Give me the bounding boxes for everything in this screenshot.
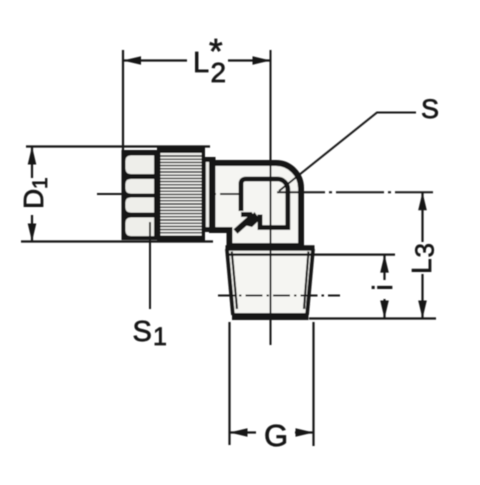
svg-text:G: G	[264, 418, 288, 453]
dim D1: down arrow	[28, 224, 37, 242]
dim L2: right arrow	[253, 56, 271, 65]
dim L3: bottom reference line	[309, 317, 436, 319]
dim i: top reference line	[312, 254, 396, 256]
dim G: left extension line	[228, 322, 230, 445]
label D1	[18, 177, 52, 209]
dim D1: top reference line	[26, 145, 210, 147]
dim L3: dimension line	[421, 192, 423, 318]
knurled nut ring	[157, 148, 205, 242]
svg-text:*: *	[209, 33, 223, 72]
fills: thread cone	[227, 248, 313, 316]
svg-text:1: 1	[153, 323, 167, 351]
dim L2: dimension line	[123, 59, 271, 61]
svg-text:S: S	[133, 316, 152, 348]
svg-text:S: S	[421, 94, 439, 124]
dim D1: bottom reference line	[21, 240, 213, 242]
leader S	[279, 113, 416, 192]
dim L3: down arrow	[418, 301, 427, 319]
svg-text:1: 1	[29, 177, 52, 189]
horizontal centerline	[97, 192, 433, 194]
dim G: left arrow	[230, 428, 248, 437]
body inner profile	[241, 179, 288, 228]
dim i: down arrow	[380, 301, 389, 319]
gauge dash-dot line on thread	[218, 295, 340, 297]
svg-text:D: D	[18, 189, 49, 209]
male taper thread cone	[226, 248, 315, 317]
dim L2: left extension line	[122, 50, 124, 150]
svg-text:L: L	[406, 258, 437, 274]
chamfer diagonal	[236, 215, 255, 232]
fills: elbow body	[212, 163, 301, 246]
dim L3: up arrow	[418, 192, 427, 210]
svg-text:i: i	[367, 284, 398, 290]
svg-text:3: 3	[410, 243, 440, 257]
hex nut S1 body	[122, 150, 159, 240]
inner notch ledge	[241, 212, 252, 217]
dim i: dimension line	[383, 255, 385, 319]
dim L2: left arrow	[123, 56, 141, 65]
dim i: up arrow	[380, 255, 389, 273]
dim G: right extension line	[312, 322, 314, 446]
dim D1: up arrow	[28, 147, 37, 165]
dim G: right arrow	[296, 428, 314, 437]
elbow body outline	[212, 163, 301, 246]
dim D1: dimension line	[31, 147, 33, 242]
chamfer wedge	[244, 212, 260, 227]
dim G: dimension line	[230, 431, 314, 433]
label L3	[406, 243, 440, 274]
vertical centerline	[270, 50, 272, 345]
label i	[367, 284, 398, 290]
leader S1	[149, 222, 151, 309]
step washer band	[202, 157, 216, 232]
svg-text:L: L	[193, 47, 209, 79]
